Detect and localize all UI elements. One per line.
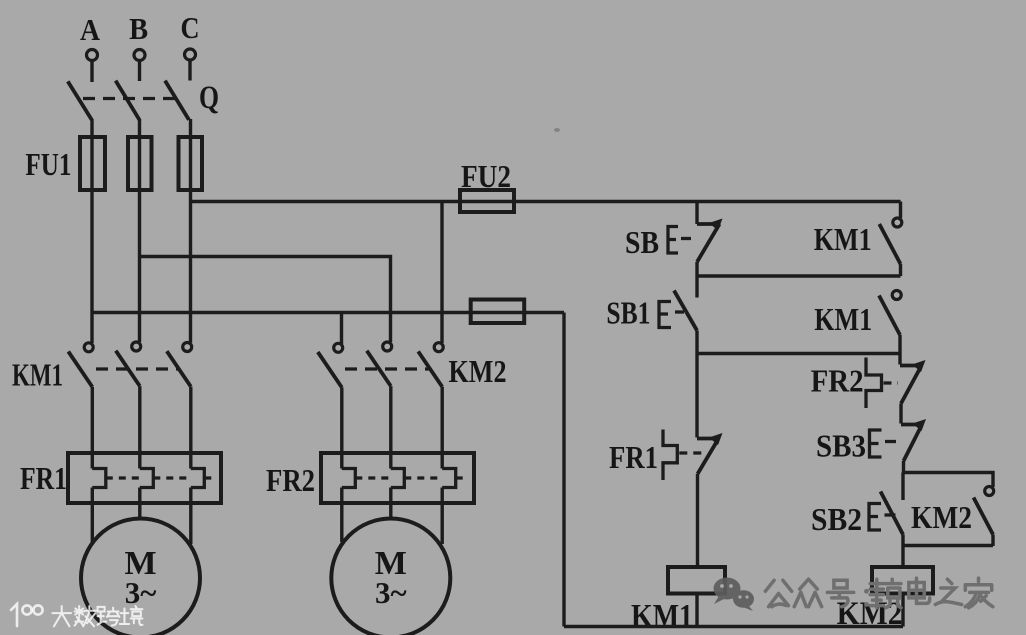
terminal A — [87, 50, 98, 61]
wire B switch to fuse — [138, 119, 141, 342]
contactor KM1 linkage dashed — [96, 367, 180, 370]
contactor KM1 aux contact 1: terminal circle — [893, 218, 902, 227]
wire L3 horizontal bus from A — [92, 311, 564, 314]
watermark right text gongzhonghao gandianzhijia — [765, 578, 993, 608]
pushbutton SB operator E — [668, 227, 678, 254]
FR2 heater element 2 — [391, 469, 405, 488]
wire C terminal to switch — [188, 60, 191, 81]
FR1 heater element 3 — [191, 469, 205, 488]
FR1 heater element 1 — [92, 469, 106, 488]
svg-text:SB: SB — [625, 224, 659, 260]
pushbutton SB3 stop: lower wire — [902, 461, 905, 473]
wire KM2 pole1 feed stub — [340, 313, 343, 345]
wire L2 horizontal bus from B — [140, 257, 391, 343]
svg-text:KM1: KM1 — [814, 301, 872, 337]
svg-text:SB2: SB2 — [811, 501, 862, 537]
thermal relay FR2 box — [321, 453, 474, 503]
switch Q pole A blade — [68, 81, 92, 119]
thermal contact FR2: arrowhead — [912, 360, 926, 372]
pushbutton SB2 operator dash — [885, 513, 896, 516]
FR1 heater linkage dashed — [106, 476, 214, 479]
thermal contact FR2: lower wire — [899, 404, 902, 424]
FR2 heater element 3 — [442, 469, 456, 488]
wire KM2 pole3 feed drop — [440, 202, 443, 344]
contactor KM1 main contact 3 terminal circle — [183, 343, 192, 352]
svg-text:KM2: KM2 — [449, 353, 507, 389]
wire A switch to fuse — [90, 119, 93, 343]
pushbutton SB2 start: lower wire — [901, 535, 904, 547]
contactor KM2 main contact 2 terminal circle — [383, 342, 392, 351]
thermal contact FR1: actuator dash — [679, 451, 706, 454]
pushbutton SB1 start: blade — [674, 291, 697, 331]
pushbutton SB3 operator dash — [885, 440, 896, 443]
terminal C — [185, 49, 196, 60]
wire KM1 contact2 to FR1 heater — [138, 386, 141, 468]
svg-text:KM1: KM1 — [814, 221, 872, 257]
wire parallel branch top — [904, 473, 994, 488]
wire FR1 to motor M1 left — [91, 488, 94, 543]
wire FR2 to motor M2 mid — [389, 488, 392, 520]
speck — [554, 128, 560, 132]
svg-text:KM1: KM1 — [631, 599, 693, 635]
wire coil KM2 to bottom — [901, 594, 904, 627]
thermal contact FR1: upper wire — [695, 354, 698, 438]
svg-text:A: A — [80, 12, 101, 47]
fuse FU1 pole C — [179, 137, 203, 190]
wire FR1 to motor M1 right — [189, 488, 192, 545]
wire FR1 to motor M1 mid — [138, 488, 141, 520]
fuse FU1 pole B — [128, 137, 152, 190]
thermal contact FR1: actuator — [663, 430, 677, 481]
contactor KM2 aux contact: lower wire — [991, 535, 994, 547]
contactor KM1 aux contact 1: lower wire — [899, 264, 902, 276]
contactor KM2 aux contact: terminal circle — [985, 487, 994, 496]
FR1 heater element 2 — [140, 469, 154, 488]
terminal B — [134, 50, 145, 61]
contactor KM2 main contact 3 blade — [418, 351, 442, 386]
pushbutton SB2 start: upper wire — [901, 473, 904, 501]
thermal contact FR1: blade — [698, 440, 719, 475]
pushbutton SB stop: NC bar — [697, 222, 720, 226]
wire KM1 contact3 to FR1 heater — [189, 387, 192, 469]
thermal contact FR1: NC bar — [697, 437, 717, 441]
watermark left text da shu kua jing — [52, 606, 142, 626]
svg-text:FR2: FR2 — [811, 363, 864, 399]
svg-text:FR1: FR1 — [20, 460, 67, 496]
pushbutton SB1 operator dash — [675, 310, 684, 313]
thermal contact FR1: arrowhead — [709, 433, 723, 445]
pushbutton SB stop: blade — [697, 224, 720, 262]
contactor KM1 aux contact 1: drop wire — [899, 202, 902, 219]
pushbutton SB3 stop: NC bar — [901, 423, 921, 427]
thermal contact FR2: actuator — [866, 358, 882, 409]
contactor KM2 linkage dashed — [345, 367, 429, 370]
pushbutton SB1 operator E — [659, 302, 671, 328]
pushbutton SB operator dash — [681, 237, 691, 240]
contactor KM2 aux contact: blade — [974, 498, 994, 535]
fuse FU2 — [460, 190, 514, 212]
wire rung link 2 — [697, 352, 900, 355]
contactor KM2 main contact 1 terminal circle — [334, 343, 343, 352]
pushbutton SB3 operator E — [870, 430, 882, 457]
coil KM2 — [872, 567, 933, 594]
wire FR2 to motor M2 left — [340, 488, 343, 543]
wire KM1 contact1 to FR1 heater — [91, 387, 94, 469]
contactor KM1 main contact 2 blade — [116, 351, 140, 386]
pushbutton SB3 stop: blade — [904, 426, 922, 462]
svg-text:FR1: FR1 — [609, 439, 658, 475]
contactor KM1 aux contact 2: lower wire — [898, 335, 901, 354]
svg-text:KM1: KM1 — [12, 357, 63, 393]
contactor KM2 main contact 2 blade — [367, 351, 391, 386]
pushbutton SB3 stop: arrowhead — [913, 419, 927, 431]
watermark left logo — [11, 604, 43, 626]
thermal contact FR2: actuator dash — [884, 381, 899, 384]
switch Q linkage dashed — [83, 97, 181, 100]
contactor KM2 main contact 1 blade — [318, 352, 342, 387]
switch Q pole B blade — [116, 81, 140, 120]
wire SB2 branch to coil KM2 — [901, 546, 904, 568]
thermal relay FR1 box — [68, 453, 221, 503]
thermal contact FR1: lower wire — [696, 474, 699, 567]
wire C switch to fuse — [189, 119, 192, 343]
pushbutton SB2 start: blade — [881, 492, 904, 535]
watermark right wechat icon — [714, 578, 755, 612]
svg-text:FR2: FR2 — [266, 462, 315, 498]
switch Q pole C blade — [165, 81, 189, 120]
fuse FU3 control — [471, 300, 525, 324]
contactor KM1 aux contact 1: blade — [879, 224, 900, 264]
thermal contact FR2: blade — [901, 367, 921, 404]
thermal contact FR2: NC bar — [900, 364, 921, 368]
wire KM2 contact1 to FR2 heater — [340, 387, 343, 468]
coil KM1 — [668, 567, 725, 594]
svg-text:C: C — [181, 10, 200, 45]
contactor KM1 main contact 1 terminal circle — [84, 343, 93, 352]
pushbutton SB stop: drop wire — [695, 202, 698, 225]
contactor KM1 aux contact 2: blade — [879, 296, 900, 336]
pushbutton SB2 operator E — [869, 504, 881, 531]
wire A terminal to switch — [90, 61, 93, 83]
wire bottom return — [564, 625, 903, 628]
wire KM2 contact2 to FR2 heater — [389, 386, 392, 468]
wire coil KM1 to bottom — [695, 594, 698, 627]
pushbutton SB1 start: lower wire — [695, 331, 698, 354]
wire KM2 contact3 to FR2 heater — [441, 387, 444, 469]
pushbutton SB1 start: upper wire — [695, 276, 698, 298]
motor M2 circle — [331, 519, 450, 635]
svg-text:FU1: FU1 — [25, 146, 71, 182]
svg-text:FU2: FU2 — [461, 158, 511, 194]
FR2 heater element 1 — [342, 469, 356, 488]
wire parallel branch bottom — [903, 544, 993, 547]
svg-text:Q: Q — [199, 80, 219, 116]
contactor KM1 main contact 2 terminal circle — [132, 342, 141, 351]
svg-text:3~: 3~ — [375, 575, 407, 610]
wire FR2 to motor M2 right — [441, 488, 444, 545]
svg-text:SB1: SB1 — [606, 295, 650, 331]
wire B terminal to switch — [138, 61, 141, 82]
thermal contact FR2: upper wire — [898, 354, 901, 365]
contactor KM1 main contact 1 blade — [68, 352, 92, 387]
pushbutton SB stop: lower wire — [695, 262, 698, 276]
wire control return vertical — [562, 313, 565, 627]
wire L1 top horizontal bus from C — [191, 200, 901, 203]
contactor KM1 main contact 3 blade — [167, 351, 191, 386]
motor M1 circle — [81, 519, 200, 635]
svg-text:3~: 3~ — [125, 575, 157, 610]
svg-text:B: B — [129, 11, 148, 46]
pushbutton SB stop: arrowhead — [709, 219, 723, 231]
contactor KM1 aux contact 2: terminal circle — [892, 291, 901, 300]
svg-text:KM2: KM2 — [911, 499, 972, 535]
contactor KM2 main contact 3 terminal circle — [434, 343, 443, 352]
svg-text:SB3: SB3 — [816, 428, 866, 464]
FR2 heater linkage dashed — [355, 476, 465, 479]
wire rung link 1 — [697, 274, 901, 277]
fuse FU1 pole A — [80, 137, 105, 190]
